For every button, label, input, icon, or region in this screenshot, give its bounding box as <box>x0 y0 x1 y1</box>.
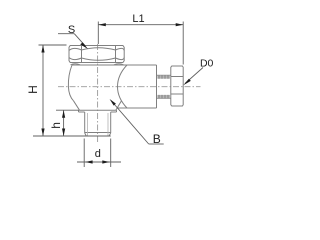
centerline vertical <box>97 44 99 142</box>
dimension h <box>56 110 79 136</box>
hex nut S (top) <box>69 46 124 65</box>
svg-text:H: H <box>26 85 40 94</box>
body top + boss top <box>72 64 157 66</box>
threaded stud <box>85 112 111 136</box>
sphere/boss intersection arc <box>118 65 128 108</box>
cone left diagonal <box>74 101 80 110</box>
dimension H <box>39 45 67 136</box>
flange <box>79 110 117 112</box>
body (sphere) with side boss <box>68 65 156 110</box>
body left silhouette arc <box>68 65 73 101</box>
svg-text:h: h <box>49 122 63 129</box>
centerline horizontal <box>58 86 201 88</box>
hex nut D0 (right) <box>171 66 183 106</box>
svg-text:d: d <box>95 148 101 160</box>
cone right diagonal <box>116 101 122 110</box>
dimension d <box>77 139 121 168</box>
svg-text:L1: L1 <box>132 13 144 25</box>
boss bottom <box>117 107 157 109</box>
stem (threaded nipple) <box>157 75 171 98</box>
boss right edge <box>156 65 158 108</box>
dimension L1 <box>98 22 183 65</box>
svg-text:D0: D0 <box>200 58 214 70</box>
bottom extension line <box>33 135 111 137</box>
